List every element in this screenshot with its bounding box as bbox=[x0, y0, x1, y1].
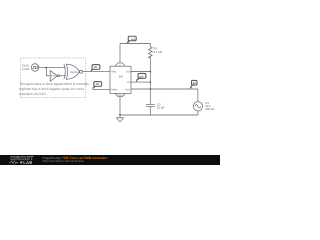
svg-text:This generates a clock signal: This generates a clock signal which is n… bbox=[19, 82, 89, 86]
svg-text:SC: SC bbox=[193, 82, 197, 85]
svg-text:2 kHz: 2 kHz bbox=[22, 67, 30, 71]
svg-text:XNOR1: XNOR1 bbox=[70, 71, 79, 74]
svg-text:THRS: THRS bbox=[111, 89, 118, 92]
svg-text:10 µF: 10 µF bbox=[157, 105, 165, 109]
svg-text:TH: TH bbox=[96, 83, 99, 86]
svg-text:TRIG: TRIG bbox=[111, 71, 117, 74]
svg-text:high but has a brief negative: high but has a brief negative pulse for … bbox=[19, 87, 84, 91]
svg-text:TR: TR bbox=[94, 66, 97, 69]
svg-text:8.1 kΩ: 8.1 kΩ bbox=[154, 50, 163, 54]
svg-text:OUT: OUT bbox=[125, 89, 131, 92]
svg-text:+5V: +5V bbox=[131, 38, 136, 41]
svg-text:OUT: OUT bbox=[139, 76, 144, 79]
svg-text:555: 555 bbox=[119, 76, 124, 79]
svg-text:transition of CLK1.: transition of CLK1. bbox=[19, 92, 47, 96]
svg-text:http://circuitlab.com/caswhp4e: http://circuitlab.com/caswhp4e bbox=[43, 159, 85, 163]
svg-text:BUF1: BUF1 bbox=[51, 75, 57, 78]
svg-text:200 Hz: 200 Hz bbox=[205, 107, 215, 111]
svg-text:GND: GND bbox=[118, 94, 123, 97]
svg-text:CV: CV bbox=[127, 81, 131, 84]
svg-text:LAB: LAB bbox=[23, 160, 32, 165]
svg-text:DIS: DIS bbox=[126, 71, 130, 74]
